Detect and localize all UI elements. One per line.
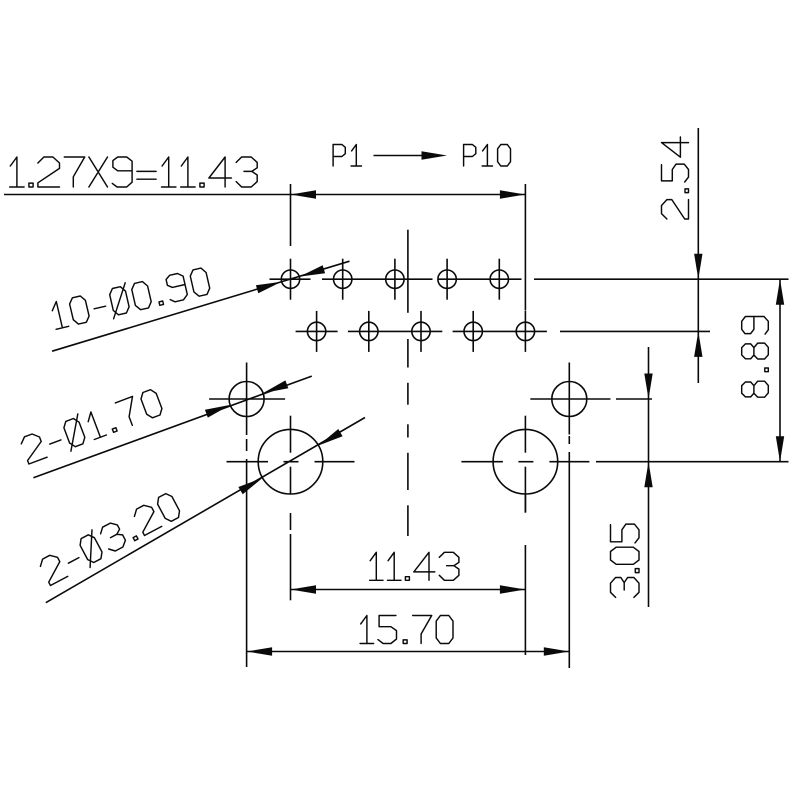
label 2-dia3.20 xyxy=(40,494,179,586)
label 10-dia0.90 xyxy=(52,268,209,329)
label 3.05 xyxy=(611,524,640,597)
hole P6 (bottom row, pin 6) xyxy=(412,311,430,352)
hole P4 (bottom row, pin 4) xyxy=(360,311,378,352)
hole P10 (bottom row, pin 10) xyxy=(516,311,534,352)
leader line 2-dia1.70 xyxy=(33,376,311,478)
dimension 3.05 dim line with arrows xyxy=(644,347,652,607)
leader line 10-dia0.90 xyxy=(52,261,349,351)
label 15.70 xyxy=(360,616,453,644)
hole P3 (top row, pin 3) xyxy=(334,259,352,300)
label P1 xyxy=(333,145,361,167)
dimension 8.89 dim line with arrows xyxy=(776,279,784,462)
dimension 1.27X9=11.43 dim line xyxy=(4,190,525,198)
dimension 2.54 extension lines xyxy=(534,279,789,331)
hole P1 (top row, pin 1) xyxy=(281,259,299,300)
hole 2-dia1.70 right xyxy=(530,363,610,435)
label P10 xyxy=(464,145,511,167)
hole P8 (bottom row, pin 8) xyxy=(464,311,482,352)
hole P2 (bottom row, pin 2) xyxy=(307,311,325,352)
arrow P1 to P10 xyxy=(374,151,448,159)
label 1.27X9=11.43 xyxy=(10,157,258,187)
hole 2-dia3.20 left xyxy=(227,416,355,494)
dimension 11.43 dim line with arrows xyxy=(291,585,526,593)
dimension 11.43 extension lines xyxy=(291,494,526,655)
hole P7 (top row, pin 7) xyxy=(438,259,456,300)
hole P9 (top row, pin 9) xyxy=(490,259,508,300)
label 2-dia1.70 xyxy=(21,390,162,464)
label 2.54 xyxy=(662,137,689,219)
hole 2-dia3.20 right xyxy=(461,416,589,513)
dimension 8.89 extension line bottom xyxy=(596,461,789,463)
label 8.89 xyxy=(742,317,769,398)
centerline top hole row xyxy=(270,278,522,280)
dimension 15.70 extension lines xyxy=(247,435,570,668)
dimension 3.05 extension line (1.70 row) xyxy=(609,398,611,400)
label 11.43 xyxy=(370,552,459,580)
leader line 2-dia3.20 xyxy=(46,418,365,603)
dimension 1.27X9=11.43 extension lines xyxy=(291,184,526,311)
hole P5 (top row, pin 5) xyxy=(386,259,404,300)
hole 2-dia1.70 left xyxy=(209,363,285,436)
centerline bottom hole row xyxy=(296,330,547,332)
centerline vertical axis xyxy=(407,230,409,536)
dimension 15.70 dim line with arrows xyxy=(247,647,570,655)
dimension 2.54 dim line with arrows xyxy=(694,128,702,383)
